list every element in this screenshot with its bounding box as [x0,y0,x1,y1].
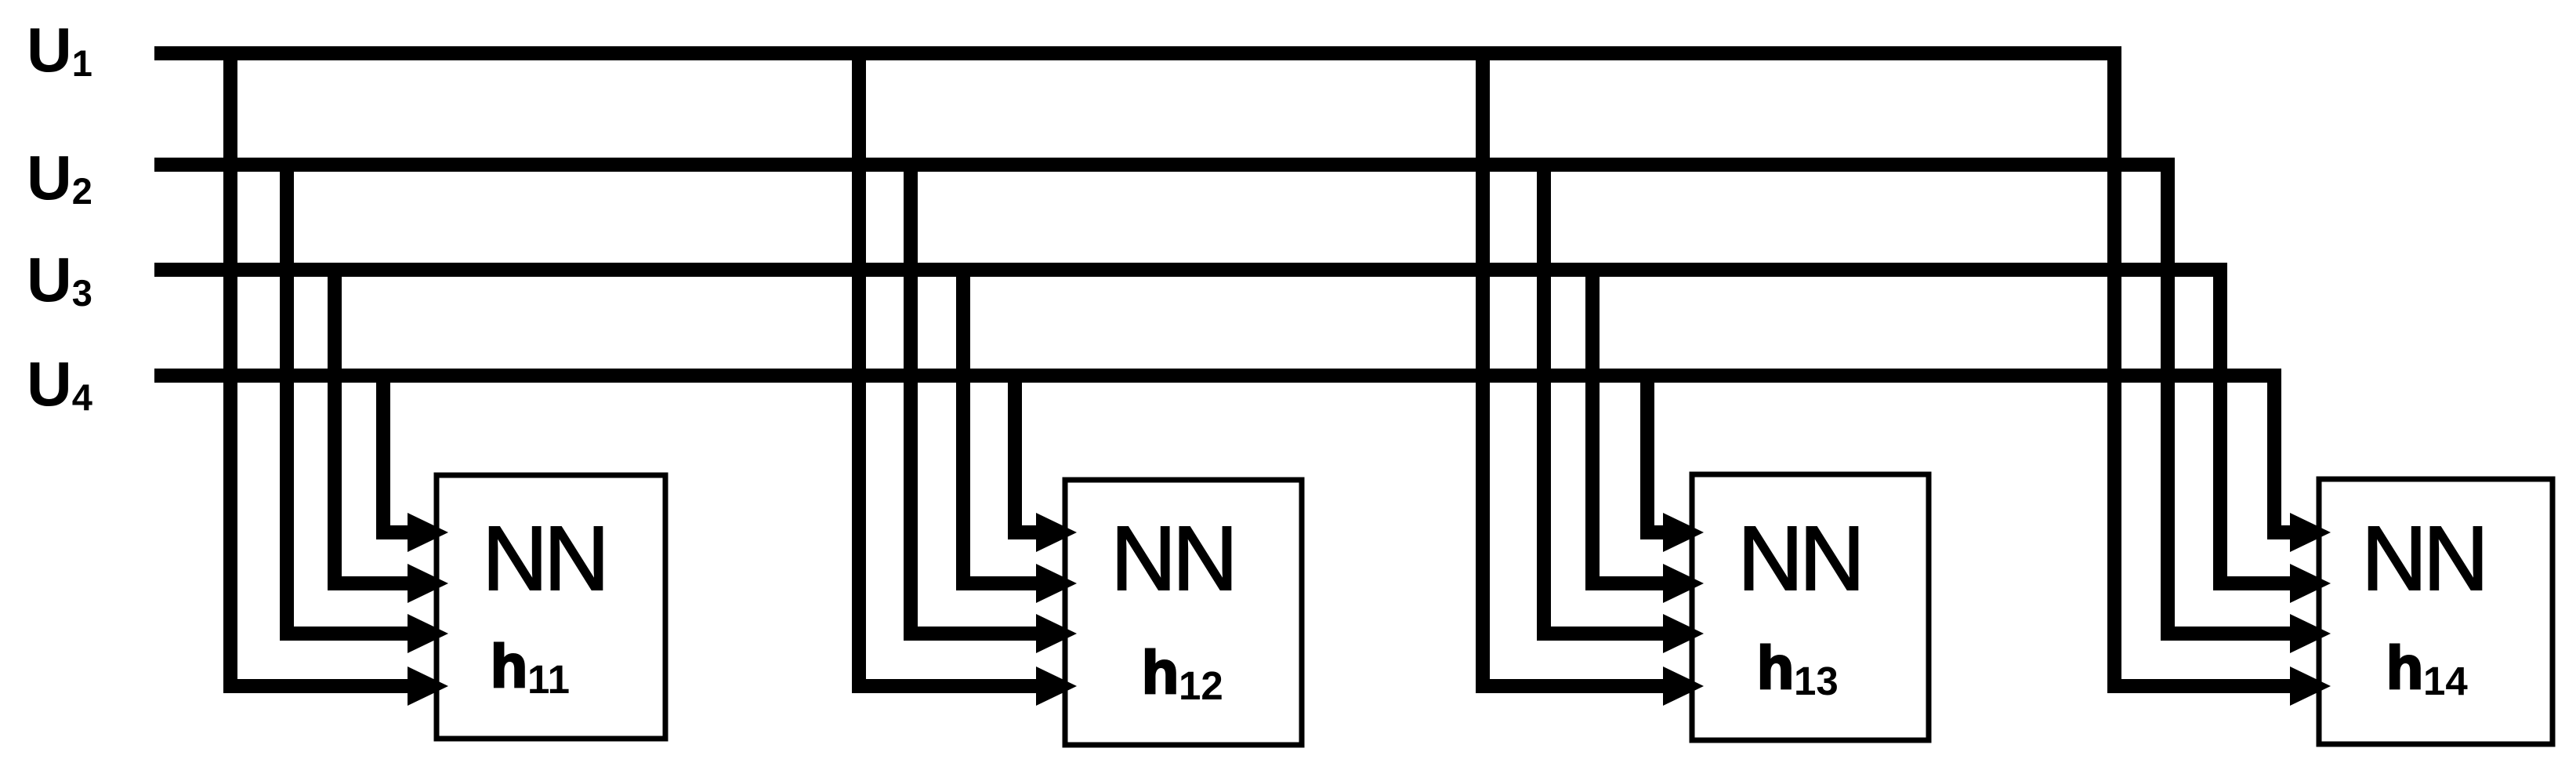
wire U2 to h13: vertical drop [1537,158,1551,641]
svg-text:NN: NN [2361,507,2485,609]
arrowhead U2 into h12 [1036,614,1077,653]
svg-text:NN: NN [1737,507,1861,609]
arrowhead U2 into h13 [1663,614,1704,653]
wire U3 to h14: vertical drop [2213,263,2227,590]
arrowhead U3 into h13 [1663,564,1704,603]
arrowhead U1 into h12 [1036,666,1077,706]
arrowhead U4 into h13 [1663,513,1704,552]
wire U1 to h14: vertical drop [2107,46,2121,693]
wire U4 to h13: vertical drop [1640,369,1654,539]
wire U2 to h12: vertical drop [904,158,918,641]
arrowhead U4 into h11 [408,513,448,552]
wire U4 to h12: horizontal run [1008,525,1044,539]
wire U2 to h11: horizontal run [280,627,415,641]
wire U3 to h11: horizontal run [328,576,415,590]
wire U4 to h11: horizontal run [376,525,415,539]
NN box h13 [1692,474,1929,740]
svg-text:NN: NN [1110,507,1234,609]
bus wire U1 [154,46,2121,60]
NN box h12 [1065,480,1302,745]
arrowhead U4 into h14 [2290,513,2331,552]
wire U1 to h13: horizontal run [1476,679,1671,693]
wire U3 to h14: horizontal run [2213,576,2298,590]
wire U3 to h12: horizontal run [956,576,1044,590]
arrowhead U2 into h14 [2290,614,2331,653]
wire U4 to h14: vertical drop [2267,369,2281,539]
wire U2 to h11: vertical drop [280,158,294,641]
wire U1 to h11: vertical drop [223,46,237,693]
wire U3 to h11: vertical drop [328,263,342,590]
wire U2 to h12: horizontal run [904,627,1044,641]
wire U1 to h12: vertical drop [852,46,866,693]
wire U4 to h14: horizontal run [2267,525,2298,539]
wire U3 to h13: horizontal run [1585,576,1671,590]
NN box h14 [2319,479,2552,744]
arrowhead U3 into h14 [2290,564,2331,603]
arrowhead U2 into h11 [408,614,448,653]
NN box h11 [437,475,665,739]
arrowhead U1 into h13 [1663,666,1704,706]
arrowhead U1 into h14 [2290,666,2331,706]
wire U2 to h13: horizontal run [1537,627,1671,641]
bus wire U2 [154,158,2175,172]
wire U4 to h11: vertical drop [376,369,390,539]
arrowhead U1 into h11 [408,666,448,706]
bus wire U3 [154,263,2227,277]
wire U2 to h14: horizontal run [2161,627,2298,641]
wire U3 to h12: vertical drop [956,263,970,590]
wire U1 to h13: vertical drop [1476,46,1490,693]
wire U1 to h11: horizontal run [223,679,415,693]
wire U1 to h12: horizontal run [852,679,1044,693]
bus wire U4 [154,369,2281,383]
arrowhead U4 into h12 [1036,513,1077,552]
wire U3 to h13: vertical drop [1585,263,1600,590]
svg-text:NN: NN [482,507,606,609]
wire U2 to h14: vertical drop [2161,158,2175,641]
wire U4 to h13: horizontal run [1640,525,1671,539]
wire U1 to h14: horizontal run [2107,679,2298,693]
wire U4 to h12: vertical drop [1008,369,1022,539]
arrowhead U3 into h12 [1036,564,1077,603]
arrowhead U3 into h11 [408,564,448,603]
